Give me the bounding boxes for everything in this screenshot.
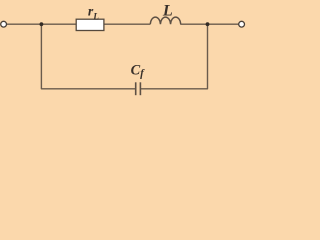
wire: inductor to right terminal xyxy=(180,23,239,25)
resistor rL body xyxy=(76,19,104,30)
capacitor Cf right plate xyxy=(139,82,141,95)
node: left junction dot xyxy=(40,22,44,26)
svg-text:L: L xyxy=(162,2,173,20)
terminal: left port xyxy=(1,21,7,27)
wire: left vertical drop and bottom run to capacitor xyxy=(41,24,135,89)
inductor L coil xyxy=(150,17,180,24)
wire: left terminal to resistor xyxy=(6,23,76,25)
wire: capacitor to bottom right and right vertical rise xyxy=(141,24,208,89)
capacitor Cf left plate xyxy=(135,82,137,95)
terminal: right port xyxy=(239,21,245,27)
wire: resistor to inductor xyxy=(104,23,150,25)
node: right junction dot xyxy=(206,22,210,26)
